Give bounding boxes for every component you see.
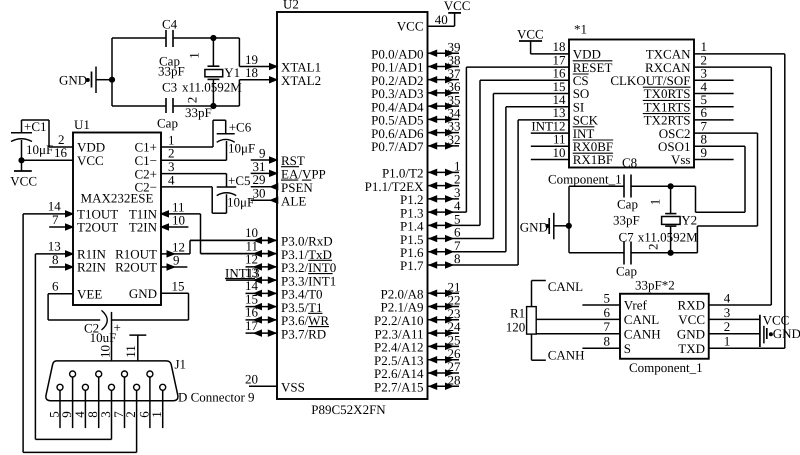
- svg-text:6: 6: [604, 305, 611, 320]
- svg-text:R2OUT: R2OUT: [115, 260, 157, 275]
- svg-text:J1: J1: [175, 357, 187, 372]
- svg-text:+C6: +C6: [229, 120, 252, 135]
- svg-text:U2: U2: [283, 0, 299, 12]
- svg-text:*1: *1: [574, 22, 587, 37]
- svg-text:C8: C8: [622, 155, 637, 170]
- svg-text:1: 1: [648, 199, 663, 206]
- svg-text:GND: GND: [129, 286, 157, 301]
- svg-text:20: 20: [245, 372, 258, 387]
- svg-text:32: 32: [448, 132, 461, 147]
- svg-text:7: 7: [52, 212, 59, 227]
- svg-text:33pF: 33pF: [613, 213, 640, 228]
- svg-text:33pF: 33pF: [158, 64, 185, 79]
- svg-text:VCC: VCC: [397, 18, 424, 33]
- svg-text:Y2: Y2: [681, 212, 697, 227]
- svg-text:1: 1: [149, 411, 164, 418]
- svg-text:10: 10: [97, 345, 112, 358]
- svg-text:GND: GND: [520, 220, 548, 235]
- svg-text:Cap: Cap: [157, 116, 178, 131]
- svg-text:VSS: VSS: [281, 380, 305, 395]
- svg-text:10: 10: [553, 145, 566, 160]
- svg-text:10μF: 10μF: [228, 141, 255, 156]
- svg-text:x11.0592M: x11.0592M: [638, 230, 698, 245]
- svg-text:D Connector 9: D Connector 9: [178, 390, 255, 405]
- svg-text:x11.0592M: x11.0592M: [182, 80, 242, 95]
- svg-text:7: 7: [604, 319, 611, 334]
- svg-text:RXD: RXD: [678, 298, 705, 313]
- svg-text:P0.7/AD7: P0.7/AD7: [371, 139, 424, 154]
- svg-text:C4: C4: [162, 17, 178, 32]
- svg-text:CANH: CANH: [548, 348, 585, 363]
- svg-text:2: 2: [724, 319, 731, 334]
- svg-text:P89C52X2FN: P89C52X2FN: [311, 402, 386, 417]
- svg-text:15: 15: [172, 279, 185, 294]
- svg-text:3: 3: [724, 305, 731, 320]
- svg-text:17: 17: [245, 318, 259, 333]
- svg-text:Cap: Cap: [617, 197, 638, 212]
- svg-text:6: 6: [52, 279, 59, 294]
- svg-text:+C5: +C5: [228, 173, 251, 188]
- svg-text:Vss: Vss: [671, 152, 691, 167]
- svg-text:120: 120: [506, 319, 526, 334]
- svg-text:INT: INT: [531, 118, 553, 133]
- svg-text:VCC: VCC: [10, 173, 37, 188]
- svg-text:CANL: CANL: [624, 312, 659, 327]
- svg-text:2: 2: [646, 243, 661, 250]
- svg-text:GND: GND: [677, 327, 705, 342]
- svg-text:TXD: TXD: [678, 341, 705, 356]
- svg-text:VCC: VCC: [517, 27, 544, 42]
- svg-text:T2OUT: T2OUT: [77, 220, 118, 235]
- svg-text:10μF: 10μF: [227, 195, 254, 210]
- svg-text:10μF: 10μF: [26, 142, 53, 157]
- svg-text:GND: GND: [59, 72, 87, 87]
- svg-text:XTAL2: XTAL2: [281, 73, 321, 88]
- svg-text:Component_1: Component_1: [629, 360, 703, 375]
- svg-text:Cap: Cap: [616, 264, 637, 279]
- svg-text:4: 4: [724, 290, 731, 305]
- svg-text:+: +: [114, 320, 121, 335]
- svg-text:P2.7/A15: P2.7/A15: [374, 380, 423, 395]
- svg-text:40: 40: [435, 12, 448, 27]
- svg-text:T2IN: T2IN: [129, 220, 158, 235]
- svg-text:8: 8: [454, 251, 461, 266]
- svg-text:VCC: VCC: [77, 153, 104, 168]
- svg-text:1: 1: [187, 52, 202, 59]
- svg-text:P1.7: P1.7: [400, 258, 424, 273]
- svg-text:4: 4: [168, 172, 175, 187]
- svg-text:ALE: ALE: [281, 193, 306, 208]
- svg-text:R2IN: R2IN: [77, 260, 107, 275]
- svg-text:C2−: C2−: [134, 180, 157, 195]
- svg-text:10: 10: [172, 212, 185, 227]
- svg-text:Y1: Y1: [224, 65, 240, 80]
- svg-text:GND: GND: [773, 326, 800, 341]
- svg-text:CANH: CANH: [624, 327, 661, 342]
- svg-text:30: 30: [253, 186, 266, 201]
- svg-text:2: 2: [185, 97, 200, 104]
- svg-text:VCC: VCC: [444, 0, 471, 13]
- svg-text:33pF: 33pF: [185, 105, 212, 120]
- svg-text:+C1: +C1: [24, 119, 47, 134]
- svg-text:CANL: CANL: [548, 279, 583, 294]
- svg-text:10uF: 10uF: [90, 330, 117, 345]
- svg-text:11: 11: [123, 345, 138, 358]
- svg-text:16: 16: [54, 145, 68, 160]
- svg-text:VEE: VEE: [77, 287, 102, 302]
- svg-text:VCC: VCC: [678, 312, 705, 327]
- svg-text:8: 8: [604, 334, 611, 349]
- svg-text:33pF*2: 33pF*2: [635, 278, 675, 293]
- svg-text:S: S: [624, 341, 631, 356]
- svg-text:C7: C7: [619, 230, 635, 245]
- svg-text:Component_1: Component_1: [548, 172, 622, 187]
- svg-text:28: 28: [448, 372, 461, 387]
- svg-text:1: 1: [724, 334, 731, 349]
- svg-text:18: 18: [245, 65, 258, 80]
- svg-text:U1: U1: [74, 117, 90, 132]
- svg-text:C3: C3: [162, 80, 177, 95]
- svg-text:Vref: Vref: [624, 298, 648, 313]
- svg-text:8: 8: [52, 252, 59, 267]
- svg-text:P3.7/RD: P3.7/RD: [281, 326, 326, 341]
- svg-text:9: 9: [173, 252, 180, 267]
- svg-text:RX1BF: RX1BF: [573, 152, 613, 167]
- svg-text:5: 5: [604, 290, 611, 305]
- svg-text:9: 9: [701, 145, 708, 160]
